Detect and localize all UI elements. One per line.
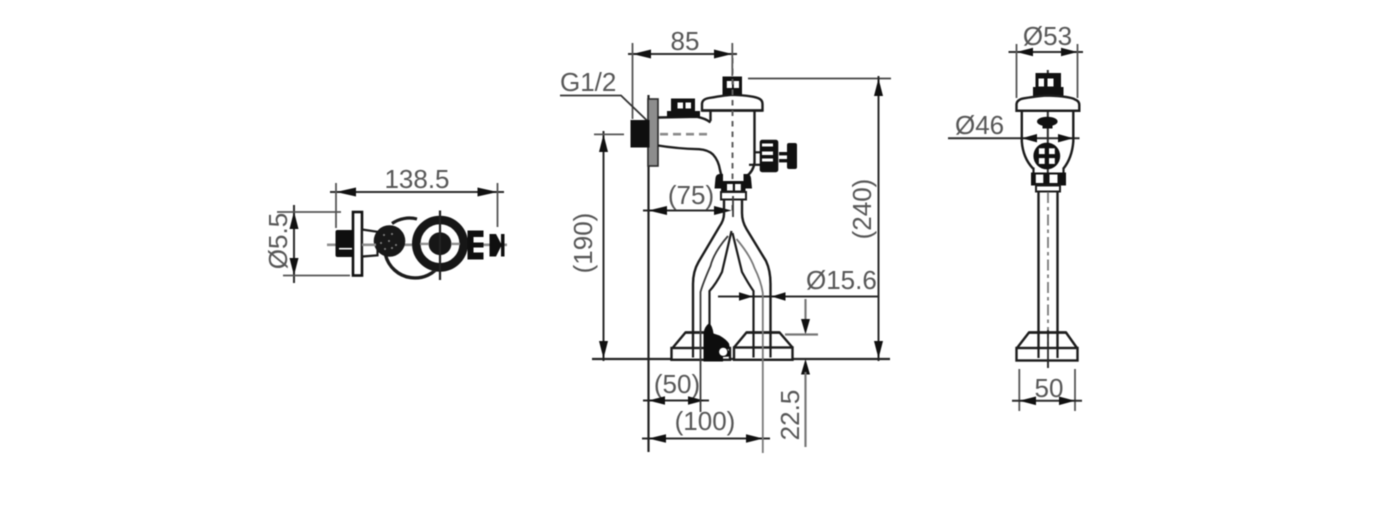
dome cap [702, 95, 763, 111]
dimension Ø5.5 top extension line [277, 211, 341, 213]
push button neck [779, 152, 787, 155]
dimension Ø5.5 bottom arrow [290, 258, 299, 276]
dimension 138.5 right arrow [478, 188, 498, 197]
G1/2 leader line [560, 96, 648, 122]
dimension Ø15.6 left arrow [739, 292, 753, 300]
dimension 50 left arrow [1019, 397, 1036, 406]
push button end cap [787, 143, 797, 169]
right foot flare [734, 333, 793, 348]
dimension 50 line [1012, 400, 1082, 402]
dimension (75) right arrow [714, 206, 732, 215]
hatched valve seat circle [374, 225, 406, 257]
dimension 138.5 left extension line [335, 183, 337, 228]
outlet fitting E-shape [468, 231, 484, 260]
tube right wall [1056, 192, 1058, 349]
main ring (push button housing) [412, 216, 468, 272]
dimension Ø46 right arrow [1058, 134, 1073, 142]
svg-text:G1/2: G1/2 [560, 67, 616, 97]
inlet hex nut [336, 230, 354, 257]
background circle top arc [392, 218, 417, 223]
dimension 22.5 lower arrow (up) [801, 359, 810, 375]
dimension (75) left arrow [649, 206, 668, 215]
dimension (190) top arrow [599, 134, 608, 152]
bottom nut right wing [744, 174, 753, 189]
right foot top edge [747, 331, 780, 333]
small top nut base [667, 111, 700, 118]
dimension Ø15.6 right arrow [772, 292, 786, 300]
neck below cone [1032, 168, 1034, 174]
centerline segment across cone [362, 244, 376, 247]
inlet arm top outline [658, 117, 711, 123]
centerline through foot [1047, 348, 1049, 368]
wall flange plate [353, 212, 362, 276]
left foot flare [673, 333, 725, 349]
lower nut [1031, 173, 1066, 186]
dimension Ø5.5 top arrow [290, 212, 299, 230]
svg-text:(75): (75) [668, 180, 714, 210]
dimension Ø53 right arrow [1061, 48, 1078, 57]
left leg centerline [701, 236, 729, 412]
push button stem [755, 151, 761, 153]
left leg walls through foot [692, 348, 694, 358]
dimension Ø53 line [1009, 51, 1084, 53]
dimension 85 left extension line [632, 43, 634, 119]
push button knob [760, 140, 779, 172]
wall vertical line [647, 95, 649, 452]
dimension 22.5 upper arrow (down) [801, 319, 810, 335]
crotch right inner wall [733, 233, 754, 355]
svg-text:85: 85 [671, 26, 700, 56]
svg-text:(50): (50) [654, 369, 700, 399]
dimension Ø5.5 line [293, 205, 295, 283]
dimension 85 right arrow [714, 50, 732, 59]
body walls [1022, 111, 1033, 169]
inlet arm bottom outline [658, 146, 722, 177]
svg-text:Ø46: Ø46 [955, 110, 1004, 140]
dimension Ø53 left arrow [1017, 48, 1034, 57]
foot centerline [1047, 330, 1049, 368]
inlet arm dashed centerline [660, 133, 712, 136]
body left wall [709, 111, 711, 122]
dimension (190) line [603, 131, 605, 361]
centerline vertical [1047, 70, 1049, 188]
body right wall [746, 111, 755, 177]
svg-text:(190): (190) [568, 213, 598, 274]
left foot band [672, 348, 731, 360]
dimension 50 left extension line [1018, 369, 1020, 411]
foot band [1017, 348, 1078, 361]
dimension Ø5.5 bottom extension line [283, 275, 350, 277]
bottom nut left wing [715, 174, 724, 189]
svg-text:Ø53: Ø53 [1023, 21, 1072, 51]
dimension (50) line [643, 400, 709, 402]
internal piston cap [1037, 117, 1058, 127]
svg-text:(240): (240) [847, 179, 877, 240]
dimension (75) line [643, 210, 726, 212]
tube walls through foot [1037, 348, 1039, 358]
foot top edge [1029, 331, 1066, 333]
top nut on dome [723, 77, 743, 96]
dimension (240) top extension line [748, 78, 891, 80]
tube dashed centerline [1047, 192, 1049, 345]
wall flange plate [648, 99, 658, 166]
dome cap [1017, 96, 1080, 111]
svg-text:(100): (100) [675, 406, 736, 436]
main down tube right wall [742, 200, 771, 356]
horizontal centerline [327, 244, 507, 247]
union collar [721, 192, 746, 200]
main down tube left wall [693, 200, 724, 356]
dimension 50 right extension line [1074, 369, 1076, 411]
left foot top edge [686, 331, 712, 333]
dimension 22.5 upper stem [804, 299, 806, 322]
body vertical dashed centerline [732, 58, 734, 213]
dimension (240) bottom arrow [874, 341, 883, 359]
bottom nut band [721, 181, 746, 192]
body cone between flange and circles [362, 230, 378, 257]
dimension Ø53 left extension line [1016, 44, 1018, 98]
dimension 22.5 lower stem [804, 372, 806, 447]
dimension (100) left arrow [649, 434, 667, 443]
dimension Ø46 left arrow [1022, 134, 1037, 142]
svg-text:22.5: 22.5 [775, 390, 805, 441]
black sectioned spud on left foot [704, 323, 730, 361]
dimension 85 line [628, 53, 737, 55]
svg-text:Ø5.5: Ø5.5 [263, 213, 293, 269]
push button front circle [1033, 143, 1060, 170]
crotch left inner wall [710, 231, 732, 355]
center disc [429, 232, 452, 255]
vertical crosshair line [439, 211, 441, 281]
tube left wall [1037, 192, 1039, 349]
dimension 138.5 line [330, 191, 504, 193]
dome bottom line [702, 109, 763, 111]
dimension Ø15.6 line [718, 296, 879, 298]
dimension 138.5 right extension line [497, 183, 499, 227]
svg-text:Ø15.6: Ø15.6 [806, 265, 877, 295]
small top nut [671, 99, 695, 113]
dimension Ø53 right extension line [1077, 44, 1079, 98]
svg-text:138.5: 138.5 [384, 164, 449, 194]
dimension 138.5 left arrow [336, 188, 356, 197]
foot flare [1017, 333, 1077, 349]
dimension (190) top extension line [594, 133, 624, 135]
dimension (50) right arrow [688, 396, 704, 405]
top nut [1036, 73, 1062, 88]
dimension (100) line [642, 438, 770, 440]
right leg centerline [737, 239, 763, 453]
centerline segments across ring gap [420, 243, 429, 245]
dimension 22.5 foot-top extension line [785, 333, 818, 335]
dimension (100) right arrow [746, 434, 763, 443]
right foot band [734, 348, 793, 360]
union collar [1036, 186, 1060, 192]
dimension (240) top arrow [874, 79, 883, 97]
dimension 50 right arrow [1059, 397, 1075, 406]
floor baseline [592, 358, 890, 360]
right leg walls through foot [752, 348, 754, 358]
dimension (190) bottom arrow [599, 341, 608, 359]
dimension (240) line [878, 76, 880, 361]
dimension 85 right extension line [731, 43, 733, 76]
inlet G1/2 connector [631, 120, 650, 148]
dimension Ø46 line [948, 137, 1080, 139]
dimension 85 left arrow [633, 50, 652, 59]
outlet fitting end piece [490, 234, 505, 257]
dimension (50) left arrow [649, 396, 666, 405]
background circle bottom arc [386, 255, 442, 278]
